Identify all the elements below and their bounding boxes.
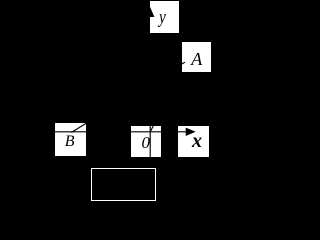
text y [159,8,166,29]
label box y [150,1,180,32]
text 0 [142,133,151,153]
label box A [182,42,211,73]
label box 0 [131,126,161,157]
line OA [150,92,170,132]
label box B [55,123,86,155]
y-axis line [149,33,151,157]
answer rectangle [91,168,156,201]
line BA [71,62,185,132]
x-axis arrowhead [186,128,196,136]
label box x [178,126,209,157]
text B [65,133,75,151]
y-axis arrowhead [146,7,154,17]
text A [191,49,202,70]
x-axis line [50,131,186,133]
text x [192,130,202,153]
